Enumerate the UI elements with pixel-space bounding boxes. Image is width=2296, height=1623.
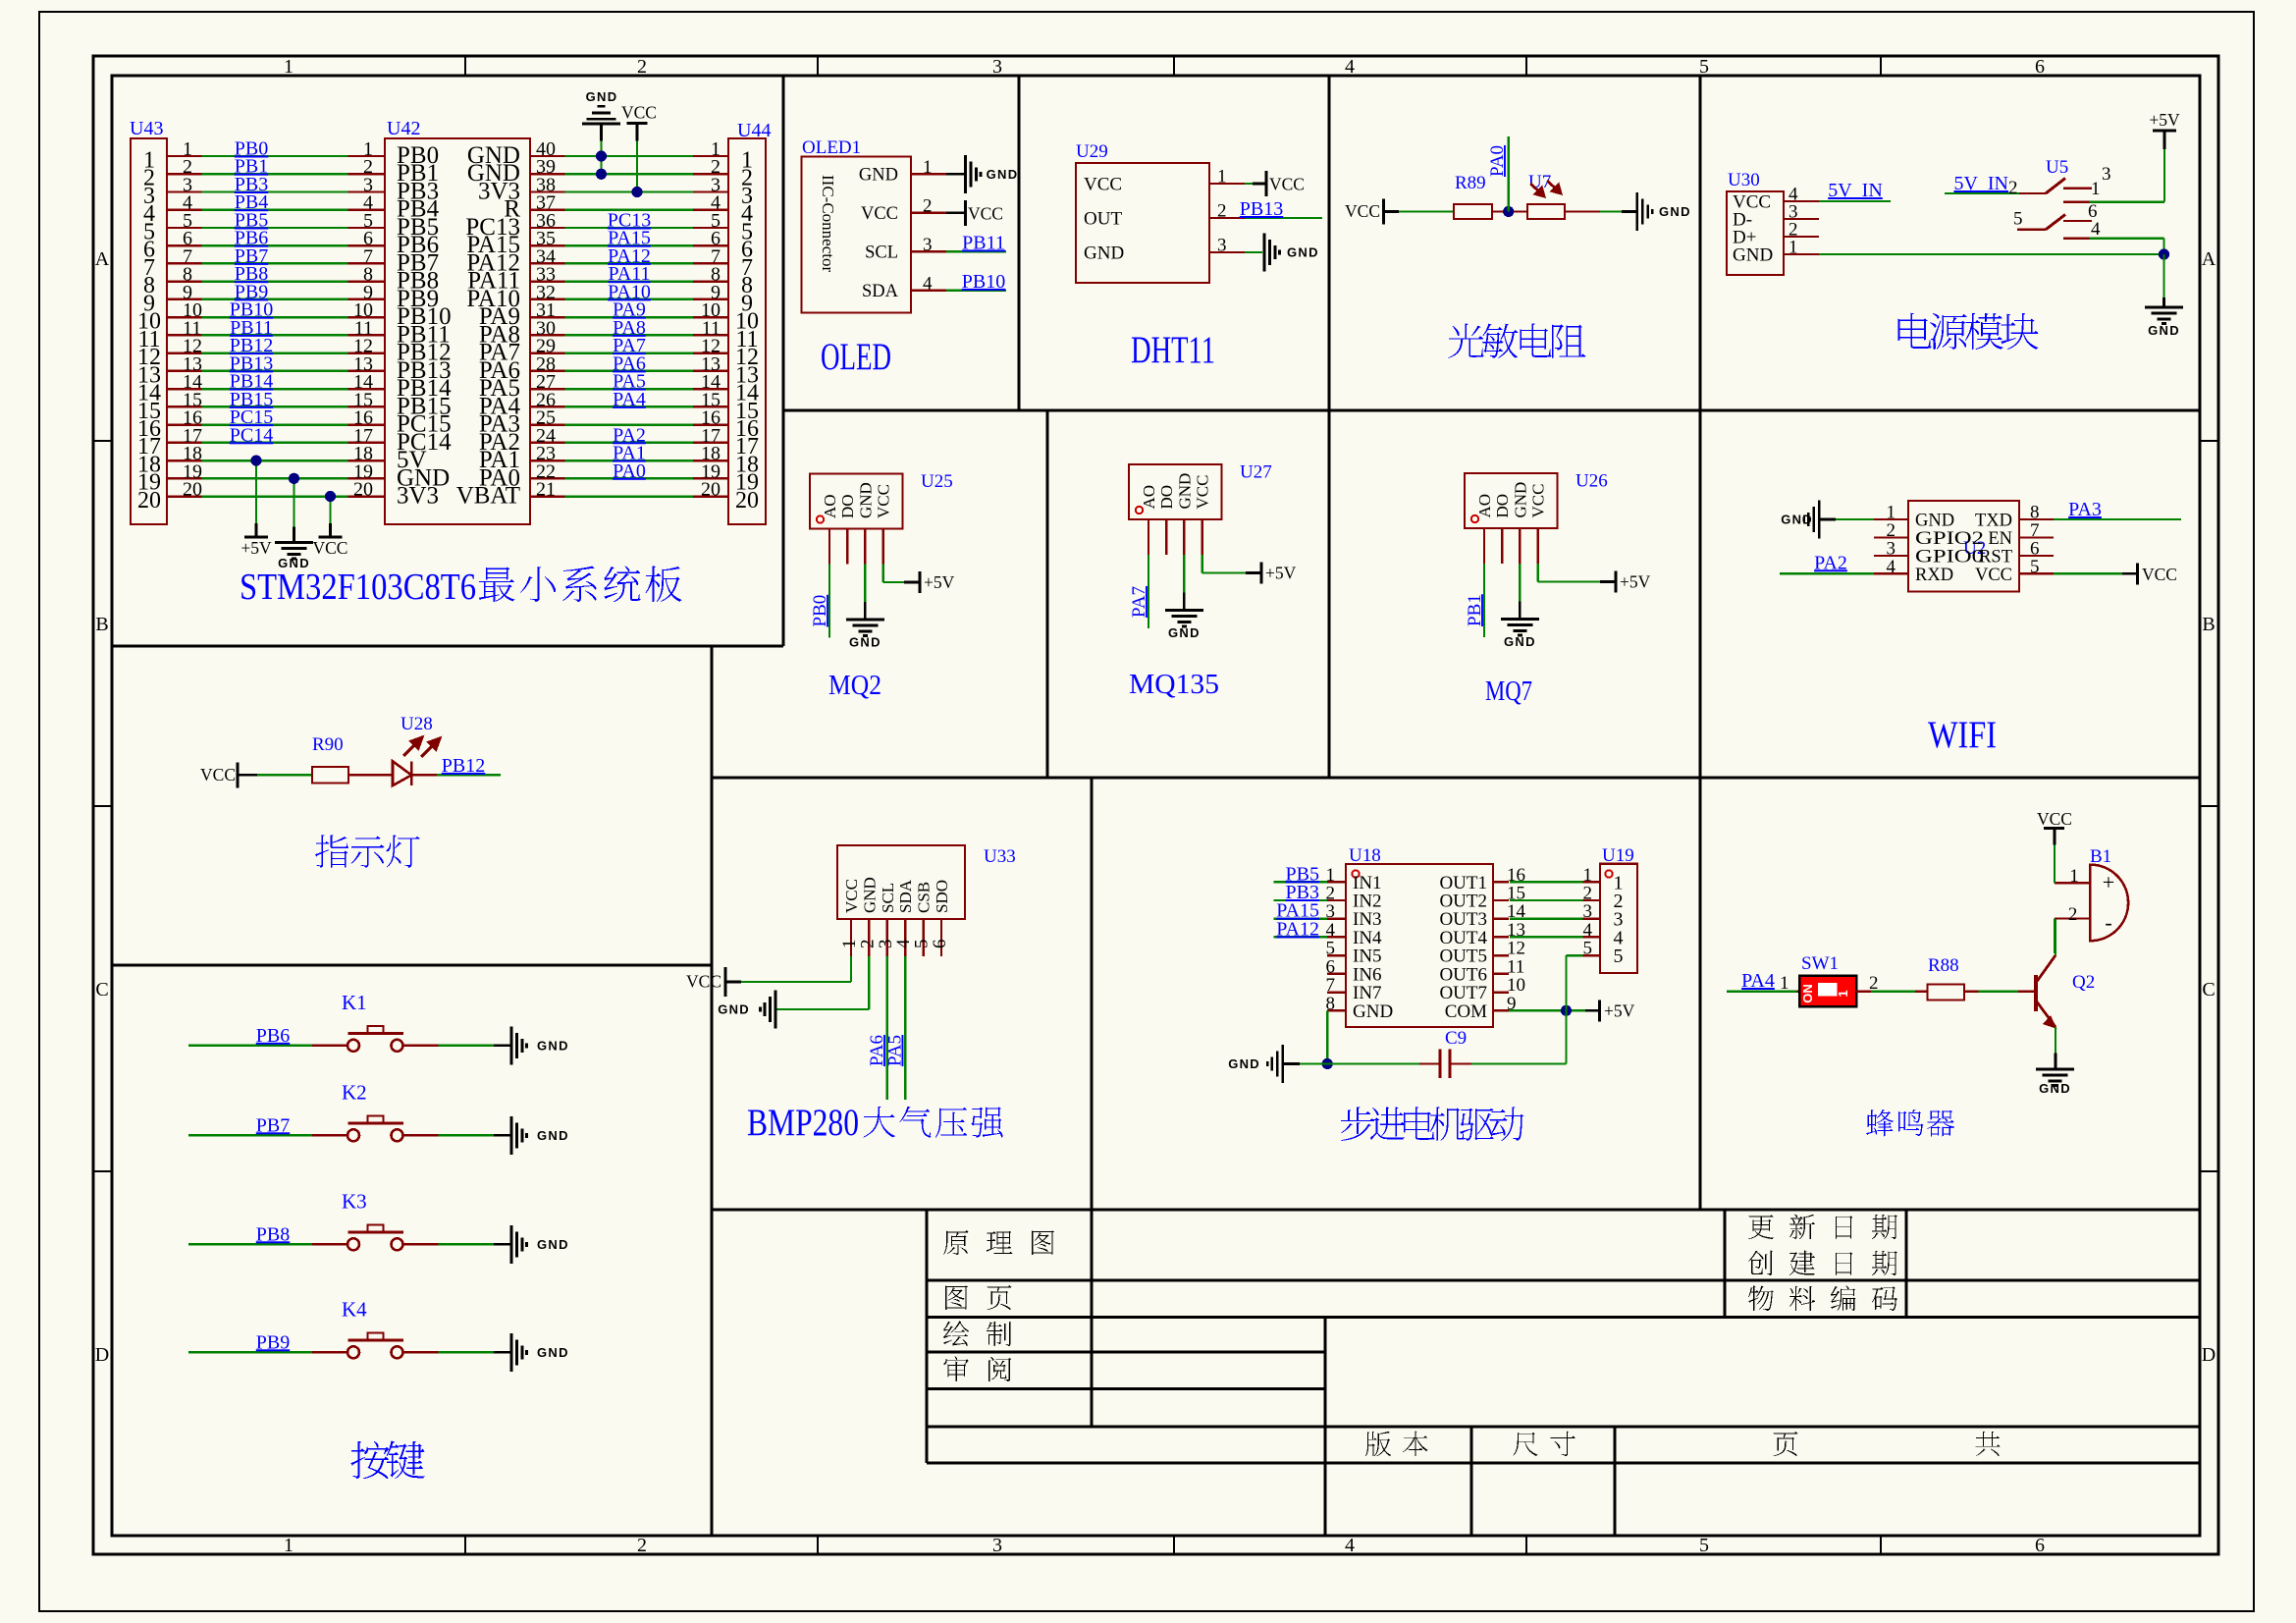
svg-text:1: 1 (284, 56, 294, 78)
svg-text:Q2: Q2 (2072, 972, 2095, 993)
svg-text:U44: U44 (737, 120, 771, 141)
svg-text:VCC: VCC (875, 484, 893, 518)
svg-text:PB0: PB0 (810, 595, 830, 627)
svg-text:DO: DO (838, 494, 857, 518)
svg-text:U26: U26 (1575, 471, 1608, 492)
svg-text:1: 1 (2069, 866, 2079, 887)
svg-text:GND: GND (1353, 1001, 1393, 1022)
svg-text:20: 20 (701, 479, 721, 501)
svg-text:DO: DO (1157, 485, 1176, 510)
svg-text:4: 4 (1345, 56, 1355, 78)
svg-text:VCC: VCC (1345, 201, 1380, 221)
svg-text:PB1: PB1 (1465, 594, 1485, 626)
svg-text:WIFI: WIFI (1928, 714, 1997, 756)
svg-text:C: C (2202, 979, 2215, 1001)
svg-text:1: 1 (923, 157, 933, 178)
svg-text:5: 5 (2013, 209, 2023, 230)
svg-text:6: 6 (2035, 1535, 2045, 1556)
svg-text:PA3: PA3 (2068, 499, 2102, 520)
svg-text:U42: U42 (387, 118, 420, 139)
svg-text:SW1: SW1 (1801, 953, 1839, 974)
svg-text:3: 3 (923, 235, 933, 255)
svg-text:VCC: VCC (1084, 175, 1122, 195)
svg-text:GND: GND (987, 167, 1019, 182)
svg-text:5: 5 (1583, 939, 1593, 959)
svg-text:D: D (2202, 1344, 2216, 1366)
svg-text:SDO: SDO (933, 880, 951, 913)
svg-text:A: A (2202, 248, 2216, 270)
svg-text:VCC: VCC (313, 538, 348, 558)
svg-text:PA7: PA7 (1129, 586, 1149, 618)
svg-text:VCC: VCC (200, 765, 236, 784)
svg-text:B: B (2202, 614, 2215, 635)
svg-text:OLED1: OLED1 (802, 137, 861, 158)
svg-text:GND: GND (860, 877, 879, 913)
svg-text:PA5: PA5 (885, 1035, 906, 1066)
svg-text:VCC: VCC (2037, 809, 2072, 829)
svg-text:A: A (95, 248, 110, 270)
svg-text:GND: GND (1168, 625, 1201, 640)
svg-text:U29: U29 (1076, 141, 1108, 162)
svg-text:GND: GND (718, 1002, 750, 1017)
svg-text:OUT: OUT (1084, 209, 1122, 230)
svg-text:GND: GND (537, 1128, 569, 1143)
svg-text:SCL: SCL (879, 883, 897, 913)
svg-text:U33: U33 (984, 846, 1016, 867)
svg-text:PB13: PB13 (1240, 198, 1283, 220)
svg-text:GND: GND (1511, 482, 1529, 518)
svg-text:PA0: PA0 (1487, 145, 1508, 177)
svg-text:D: D (95, 1344, 109, 1366)
svg-text:VCC: VCC (861, 204, 898, 224)
svg-text:PA4: PA4 (613, 389, 646, 410)
svg-text:GND: GND (1287, 245, 1319, 260)
svg-text:4: 4 (1345, 1535, 1355, 1556)
svg-text:GND: GND (859, 165, 898, 185)
svg-text:PB6: PB6 (256, 1025, 290, 1047)
svg-text:B: B (95, 614, 108, 635)
svg-text:20: 20 (183, 479, 202, 501)
svg-text:GND: GND (537, 1038, 569, 1053)
svg-text:GPIO0: GPIO0 (1915, 548, 1984, 568)
svg-text:5: 5 (1614, 946, 1624, 967)
svg-text:PA4: PA4 (1741, 970, 1775, 992)
svg-text:PC14: PC14 (230, 424, 273, 446)
svg-text:VCC: VCC (968, 203, 1003, 223)
svg-text:+: + (2103, 870, 2114, 894)
svg-text:EN: EN (1988, 529, 2012, 549)
svg-text:OLED: OLED (821, 336, 891, 378)
svg-text:U5: U5 (2046, 157, 2068, 178)
svg-text:5V_IN: 5V_IN (1953, 173, 2008, 194)
svg-text:PA12: PA12 (1276, 918, 1319, 940)
svg-text:3: 3 (992, 1535, 1002, 1556)
svg-text:VCC: VCC (2142, 565, 2177, 584)
svg-text:VCC: VCC (842, 879, 861, 913)
svg-text:PB11: PB11 (962, 232, 1005, 253)
svg-text:AO: AO (1475, 494, 1494, 518)
svg-text:VBAT: VBAT (456, 483, 520, 510)
svg-text:PB7: PB7 (256, 1114, 290, 1136)
svg-text:1: 1 (2091, 179, 2101, 199)
svg-text:GND: GND (1084, 243, 1124, 264)
svg-text:DO: DO (1493, 494, 1512, 518)
svg-text:GND: GND (1733, 245, 1773, 266)
svg-text:DHT11: DHT11 (1131, 329, 1215, 371)
svg-text:CSB: CSB (915, 882, 934, 913)
svg-text:AO: AO (1140, 485, 1158, 510)
svg-text:4: 4 (1887, 557, 1896, 577)
svg-text:SCL: SCL (865, 243, 898, 262)
svg-text:4: 4 (2091, 219, 2101, 240)
svg-text:+5V: +5V (1604, 1001, 1635, 1020)
svg-text:RST: RST (1979, 548, 2012, 568)
svg-text:K1: K1 (342, 991, 367, 1014)
svg-text:GND: GND (1228, 1056, 1260, 1071)
svg-text:5V_IN: 5V_IN (1828, 180, 1883, 201)
svg-text:3: 3 (992, 56, 1002, 78)
svg-text:3: 3 (1217, 236, 1227, 256)
svg-text:U27: U27 (1240, 462, 1272, 483)
svg-text:GND: GND (1781, 513, 1813, 527)
svg-text:1: 1 (1217, 167, 1227, 188)
svg-text:+5V: +5V (2149, 110, 2180, 130)
svg-text:R89: R89 (1455, 173, 1486, 193)
svg-text:+5V: +5V (1620, 572, 1651, 592)
svg-text:2: 2 (2008, 178, 2018, 198)
svg-text:GPIO2: GPIO2 (1915, 529, 1984, 549)
svg-text:2: 2 (1217, 201, 1227, 222)
svg-text:RXD: RXD (1915, 566, 1953, 585)
svg-text:2: 2 (637, 1535, 647, 1556)
svg-text:GND: GND (2148, 323, 2180, 338)
svg-text:C9: C9 (1445, 1028, 1467, 1049)
svg-text:+5V: +5V (240, 538, 272, 558)
svg-text:+5V: +5V (924, 572, 955, 592)
svg-text:K2: K2 (342, 1080, 367, 1104)
svg-text:IIC-Connector: IIC-Connector (819, 175, 837, 272)
svg-text:PA0: PA0 (613, 460, 646, 482)
svg-text:1: 1 (284, 1535, 294, 1556)
svg-text:PB8: PB8 (256, 1223, 290, 1245)
svg-text:U30: U30 (1728, 170, 1760, 190)
svg-text:4: 4 (923, 273, 933, 294)
svg-text:K4: K4 (342, 1297, 367, 1321)
svg-text:6: 6 (930, 940, 950, 949)
svg-text:21: 21 (536, 479, 556, 501)
svg-text:VCC: VCC (1269, 175, 1305, 194)
svg-text:U28: U28 (400, 714, 433, 734)
svg-text:U43: U43 (130, 118, 163, 139)
svg-text:5: 5 (2030, 557, 2040, 577)
svg-text:PB9: PB9 (256, 1331, 290, 1353)
svg-text:MQ2: MQ2 (828, 670, 881, 701)
svg-text:GND: GND (537, 1345, 569, 1360)
svg-text:2: 2 (2068, 904, 2078, 925)
svg-text:MQ7: MQ7 (1485, 676, 1532, 707)
svg-text:3V3: 3V3 (397, 483, 439, 510)
svg-text:GND: GND (537, 1237, 569, 1252)
svg-text:GND: GND (1915, 512, 1954, 531)
svg-text:-: - (2105, 910, 2111, 935)
svg-text:GND: GND (586, 89, 618, 104)
svg-text:VCC: VCC (621, 103, 657, 123)
svg-text:GND: GND (2039, 1081, 2071, 1096)
svg-text:+5V: +5V (1265, 564, 1297, 583)
svg-text:GND: GND (1504, 634, 1536, 649)
svg-text:6: 6 (2035, 56, 2045, 78)
svg-text:VCC: VCC (1194, 475, 1212, 510)
svg-text:20: 20 (353, 479, 373, 501)
svg-text:SDA: SDA (896, 879, 915, 913)
svg-text:3: 3 (2102, 164, 2111, 185)
svg-text:GND: GND (1659, 204, 1691, 219)
svg-text:K3: K3 (342, 1189, 367, 1213)
svg-text:COM: COM (1445, 1001, 1487, 1022)
svg-text:VCC: VCC (1975, 566, 2012, 585)
svg-text:1: 1 (1789, 238, 1798, 258)
svg-text:PB10: PB10 (962, 271, 1005, 293)
svg-text:AO: AO (821, 494, 839, 518)
svg-text:2: 2 (923, 195, 933, 216)
svg-text:1: 1 (1836, 990, 1850, 997)
svg-text:R90: R90 (312, 734, 344, 755)
svg-text:5: 5 (1699, 56, 1709, 78)
svg-text:C: C (95, 979, 108, 1001)
svg-text:PB12: PB12 (442, 755, 485, 777)
svg-text:U25: U25 (921, 471, 953, 492)
svg-text:2: 2 (637, 56, 647, 78)
svg-text:GND: GND (1175, 473, 1194, 510)
svg-text:5: 5 (1699, 1535, 1709, 1556)
svg-text:MQ135: MQ135 (1129, 669, 1219, 700)
svg-text:ON: ON (1800, 984, 1815, 1003)
svg-text:GND: GND (849, 635, 881, 650)
svg-text:VCC: VCC (686, 972, 721, 992)
svg-text:R88: R88 (1928, 955, 1959, 976)
svg-text:GND: GND (856, 482, 875, 518)
svg-text:20: 20 (137, 488, 161, 514)
svg-text:20: 20 (735, 488, 759, 514)
svg-text:VCC: VCC (1529, 484, 1548, 518)
svg-text:STM32F103C8T6: STM32F103C8T6 (240, 567, 476, 608)
svg-text:BMP280: BMP280 (747, 1102, 859, 1144)
svg-text:SDA: SDA (862, 282, 899, 301)
svg-text:PA2: PA2 (1814, 552, 1847, 573)
svg-text:TXD: TXD (1975, 512, 2012, 531)
